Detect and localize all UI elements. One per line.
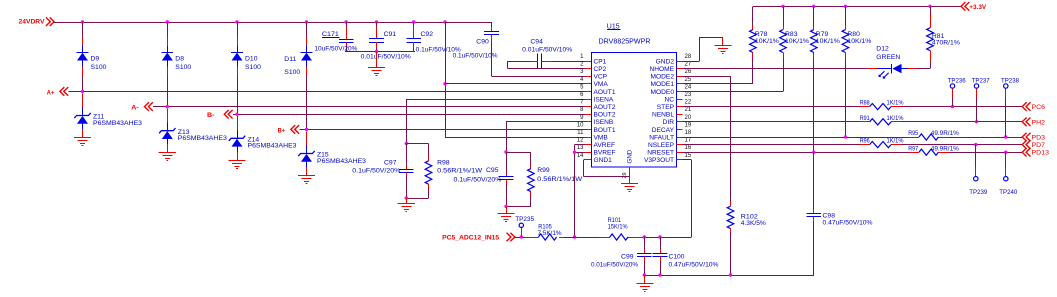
ground GND2 [714, 37, 731, 53]
wire R78 top [752, 6, 754, 29]
junction B+ Z15 [305, 128, 308, 131]
wire Z14 lead [237, 116, 239, 160]
junction at D11 [305, 20, 308, 23]
svg-text:C171: C171 [322, 31, 339, 38]
junction BVREF [573, 151, 576, 154]
svg-text:1K/1%: 1K/1% [887, 138, 904, 145]
wire vref line [515, 237, 643, 239]
svg-text:15: 15 [685, 153, 692, 159]
svg-text:0.01uF/50V/10%: 0.01uF/50V/10% [361, 54, 411, 61]
capacitor C99 [591, 237, 652, 275]
junction ISENA node [405, 142, 408, 145]
resistor R91 [860, 115, 904, 125]
resistor R81 [927, 6, 961, 68]
pin 20 DIR [663, 115, 692, 126]
svg-text:10K/1%: 10K/1% [755, 38, 779, 45]
junction AVREF node [573, 235, 576, 238]
wire C95-R99 bottom [506, 206, 531, 208]
svg-text:16: 16 [685, 145, 692, 151]
svg-text:ISENB: ISENB [594, 119, 614, 126]
svg-text:1K/1%: 1K/1% [887, 100, 904, 107]
svg-text:0.01uF/50V/10%: 0.01uF/50V/10% [522, 47, 572, 54]
test point TP236 [948, 77, 966, 106]
svg-text:B-: B- [207, 112, 215, 119]
resistor R83 [780, 30, 810, 53]
svg-text:P6SMB43AHE3: P6SMB43AHE3 [317, 158, 366, 165]
svg-text:R99: R99 [537, 167, 550, 174]
wire ISENB [506, 122, 585, 153]
junction at C91 [375, 20, 378, 23]
svg-text:25: 25 [685, 77, 692, 83]
junction at D9 [81, 20, 84, 23]
svg-text:D12: D12 [876, 46, 889, 53]
svg-text:AVREF: AVREF [594, 142, 616, 149]
svg-text:D9: D9 [91, 56, 100, 63]
pin 13 BVREF [577, 145, 616, 156]
pin 5 AOUT1 [580, 84, 616, 95]
svg-text:AOUT2: AOUT2 [594, 104, 616, 111]
svg-text:23: 23 [685, 92, 692, 98]
svg-text:GND1: GND1 [594, 157, 613, 164]
wire R79 bottom lead [813, 53, 815, 58]
capacitor C97 [352, 144, 413, 199]
svg-text:0.56R/1%/1W: 0.56R/1%/1W [437, 167, 483, 174]
junction TP235 [520, 235, 523, 238]
wire B+ to BOUT1 [299, 129, 585, 131]
pin 7 AOUT2 [580, 100, 616, 111]
svg-text:26: 26 [685, 69, 692, 75]
svg-text:PD3: PD3 [1032, 135, 1046, 142]
junction TP237 [975, 120, 978, 123]
resistor R79 [811, 30, 841, 53]
pin 9 ISENB [580, 115, 614, 126]
svg-text:MODE2: MODE2 [651, 74, 675, 81]
svg-text:C94: C94 [530, 39, 543, 46]
junction TP236 [951, 105, 954, 108]
junction ISENB node [504, 150, 507, 153]
svg-text:10K/1%: 10K/1% [785, 38, 809, 45]
svg-text:DECAY: DECAY [652, 127, 675, 134]
pin 6 ISENA [580, 92, 614, 103]
wire MODE1 net [683, 58, 753, 84]
wire D11 column [306, 22, 308, 129]
svg-text:0.01uF/50V/20%: 0.01uF/50V/20% [591, 262, 638, 269]
svg-text:ISENA: ISENA [594, 96, 614, 103]
wire 24VDRV rail [54, 22, 491, 24]
svg-text:10K/1%: 10K/1% [816, 38, 840, 45]
wire C97-R98 bottom [406, 198, 428, 200]
svg-text:R97: R97 [908, 145, 918, 152]
svg-text:MODE1: MODE1 [651, 81, 675, 88]
pin 2 CP2 [580, 62, 607, 73]
svg-text:B+: B+ [278, 127, 286, 134]
junction A- Z13 [166, 105, 169, 108]
svg-text:R96: R96 [860, 138, 870, 145]
wire D10 column [237, 22, 239, 114]
resistor R98 [425, 144, 483, 199]
wire GND2 to ground [683, 37, 723, 61]
resistor R95 [908, 130, 959, 140]
ground Z13 [159, 153, 176, 161]
svg-text:10K/1%: 10K/1% [847, 38, 871, 45]
svg-text:GND2: GND2 [656, 58, 675, 65]
wire R83 top [783, 6, 785, 29]
pin 18 NFAULT [649, 130, 692, 141]
pin 26 MODE2 [651, 69, 692, 80]
svg-text:49.9R/1%: 49.9R/1% [931, 145, 959, 152]
svg-text:11: 11 [577, 130, 584, 136]
net label PC6 [1022, 102, 1045, 111]
svg-text:VMB: VMB [594, 134, 609, 141]
svg-text:0.1uF/50V/20%: 0.1uF/50V/20% [454, 176, 502, 183]
junction B- Z14 [235, 113, 238, 116]
test point TP237 [972, 77, 990, 121]
wire B- to BOUT2 [233, 114, 585, 116]
svg-text:NSLEEP: NSLEEP [648, 142, 675, 149]
wire R79 top [813, 6, 815, 29]
svg-text:S100: S100 [91, 64, 107, 71]
wire R80 to NFAULT [845, 58, 847, 137]
svg-text:BVREF: BVREF [594, 150, 616, 157]
wire R81 to LED [916, 68, 930, 70]
pin 27 NHOME [649, 62, 691, 73]
wire MODE0 net [683, 58, 784, 92]
net label +3.3V [961, 2, 987, 11]
test point TP240 [999, 152, 1017, 196]
net label B- [207, 110, 233, 119]
svg-text:A-: A- [131, 105, 139, 112]
junction C99 gnd [643, 273, 646, 276]
svg-text:R98: R98 [437, 160, 450, 167]
junction at D10 [235, 20, 238, 23]
svg-text:29: 29 [622, 173, 628, 179]
svg-text:7.5K/1%: 7.5K/1% [538, 230, 562, 237]
junction C95 gnd [504, 205, 507, 208]
junction at C171 [344, 20, 347, 23]
net label B+ [278, 125, 300, 134]
svg-text:NHOME: NHOME [649, 66, 674, 73]
junction TP238 [1004, 135, 1007, 138]
ground C95 [497, 206, 514, 221]
wire VMA branch [445, 83, 585, 85]
resistor R105 [538, 224, 562, 241]
resistor R101 [608, 217, 628, 240]
svg-text:NC: NC [664, 96, 674, 103]
wire AVREF-BVREF [575, 145, 586, 238]
svg-text:R95: R95 [908, 130, 918, 137]
net label A- [131, 102, 153, 111]
junction C97 gnd [405, 196, 408, 199]
zener Z15 [298, 151, 366, 165]
svg-text:S100: S100 [175, 64, 191, 71]
wire STEP net [683, 106, 1023, 108]
svg-text:C95: C95 [486, 167, 499, 174]
test point TP239 [969, 145, 987, 197]
svg-text:12: 12 [577, 138, 584, 144]
capacitor C171 [314, 22, 357, 53]
pin 4 VMA [580, 77, 608, 88]
svg-text:C90: C90 [476, 39, 489, 46]
svg-text:A+: A+ [47, 89, 55, 96]
ground C97 [398, 198, 415, 212]
junction C100 gnd [658, 273, 661, 276]
pin 25 MODE1 [651, 77, 692, 88]
resistor R80 [842, 30, 872, 53]
pin 22 STEP [657, 100, 692, 111]
svg-text:D10: D10 [245, 56, 258, 63]
svg-text:0.1uF/50V/20%: 0.1uF/50V/20% [352, 167, 400, 174]
svg-text:28: 28 [685, 54, 692, 60]
capacitor C94 [522, 39, 572, 69]
junction TP240 [1004, 151, 1007, 154]
net label PC5_ADC12_IN15 [442, 233, 515, 242]
wire NFAULT net [683, 137, 1023, 139]
svg-text:24VDRV: 24VDRV [19, 19, 45, 26]
resistor R99 [528, 152, 584, 206]
junction R83 rail [781, 5, 784, 8]
wire Z11 lead [82, 93, 84, 137]
svg-text:C91: C91 [384, 31, 397, 38]
junction R80 rail [844, 5, 847, 8]
pin 16 NRESET [647, 145, 692, 156]
diode D9 [77, 53, 107, 72]
wire C95-R99 top [506, 152, 531, 154]
wire R78 bottom lead [752, 53, 754, 58]
pin 3 VCP [580, 69, 608, 80]
svg-text:+3.3V: +3.3V [969, 4, 986, 11]
net label PD7 [1022, 140, 1045, 149]
pin 19 DECAY [652, 122, 692, 133]
junction A+ Z11 [81, 90, 84, 93]
pin 23 NC [664, 92, 691, 103]
wire Z13 lead [167, 109, 169, 153]
net label A+ [47, 87, 68, 96]
svg-text:15K/1%: 15K/1% [608, 223, 628, 230]
svg-text:4.3K/5%: 4.3K/5% [741, 220, 766, 227]
wire NRESET net [683, 152, 1023, 154]
test point TP238 [1001, 77, 1019, 137]
svg-text:AOUT1: AOUT1 [594, 89, 616, 96]
capacitor C90 [453, 32, 499, 60]
wire C97-R98 top [406, 143, 428, 145]
wire CP1 [542, 61, 585, 63]
ground Z11 [74, 138, 91, 146]
svg-text:10: 10 [577, 122, 584, 128]
svg-text:NENBL: NENBL [652, 112, 674, 119]
ground Z14 [228, 161, 245, 169]
net label PD3 [1022, 133, 1045, 142]
svg-text:14: 14 [577, 153, 584, 159]
svg-text:CP2: CP2 [594, 66, 607, 73]
svg-text:TP235: TP235 [515, 216, 534, 223]
svg-text:R88: R88 [860, 100, 870, 107]
junction R81 rail [928, 5, 931, 8]
svg-text:NRESET: NRESET [647, 150, 674, 157]
svg-text:17: 17 [685, 138, 692, 144]
svg-text:GND: GND [627, 149, 634, 163]
svg-text:BOUT2: BOUT2 [594, 112, 616, 119]
zener Z14 [229, 136, 297, 150]
wire bottom ground bus [644, 275, 814, 277]
svg-text:MODE0: MODE0 [651, 89, 675, 96]
resistor R97 [908, 145, 959, 155]
net label PD13 [1022, 148, 1049, 157]
junction VMA [443, 82, 446, 85]
wire D9 column [82, 22, 84, 91]
junction at C92 [412, 20, 415, 23]
svg-text:C99: C99 [621, 254, 634, 261]
svg-text:470R/1%: 470R/1% [932, 39, 960, 46]
svg-text:27: 27 [685, 62, 692, 68]
wire R79 to NRESET [813, 58, 815, 152]
wire C90 to VCP [492, 41, 586, 77]
pin GND pad [622, 149, 634, 178]
pin 1 CP1 [580, 54, 607, 65]
resistor R102 [727, 202, 766, 275]
net label 24VDRV [19, 17, 55, 26]
svg-text:24: 24 [685, 84, 692, 90]
svg-text:0.56R/1%/1W: 0.56R/1%/1W [537, 176, 583, 183]
svg-text:0.47uF/50V/10%: 0.47uF/50V/10% [669, 261, 719, 268]
svg-text:C97: C97 [384, 160, 397, 167]
pin 15 V3P3OUT [644, 153, 692, 164]
svg-text:C98: C98 [823, 212, 836, 219]
capacitor C95 [454, 152, 514, 206]
svg-text:GREEN: GREEN [876, 54, 900, 61]
svg-text:PH2: PH2 [1032, 119, 1046, 126]
svg-text:TP238: TP238 [1001, 77, 1019, 84]
svg-text:TP237: TP237 [972, 77, 990, 84]
svg-text:CP1: CP1 [594, 58, 607, 65]
svg-text:S100: S100 [284, 69, 300, 76]
svg-text:0.47uF/50V/10%: 0.47uF/50V/10% [823, 219, 873, 226]
svg-text:VCP: VCP [594, 74, 608, 81]
capacitor C91 [361, 22, 411, 61]
svg-text:P6SMB43AHE3: P6SMB43AHE3 [178, 135, 227, 142]
svg-text:VMA: VMA [594, 81, 609, 88]
capacitor C92 [406, 22, 461, 54]
junction R102 gnd [729, 273, 732, 276]
pin 28 GND2 [656, 54, 692, 65]
pin 8 BOUT2 [580, 107, 616, 118]
wire NHOME to LED [683, 68, 868, 70]
svg-text:STEP: STEP [657, 104, 675, 111]
junction R79 rail [812, 5, 815, 8]
svg-text:18: 18 [685, 130, 692, 136]
resistor R78 [750, 30, 780, 53]
svg-text:13: 13 [577, 145, 584, 151]
junction cap gnd [375, 50, 378, 53]
wire CP2 loop [507, 61, 585, 69]
wire ISENA [406, 99, 585, 144]
zener Z13 [159, 128, 227, 142]
wire GND1 to pad gnd [584, 160, 630, 177]
ground Z15 [298, 176, 315, 184]
svg-text:19: 19 [685, 122, 692, 128]
svg-text:P6SMB43AHE3: P6SMB43AHE3 [248, 143, 297, 150]
capacitor C100 [653, 237, 719, 275]
resistor R88 [860, 100, 904, 110]
pin 17 NSLEEP [648, 138, 692, 149]
pin 14 GND1 [577, 153, 612, 164]
svg-text:BOUT1: BOUT1 [594, 127, 616, 134]
pin 12 AVREF [577, 138, 615, 149]
led D12 [867, 46, 916, 78]
svg-text:C92: C92 [421, 31, 434, 38]
wire R80 top [845, 6, 847, 29]
svg-text:PD7: PD7 [1032, 142, 1046, 149]
svg-text:49.9R/1%: 49.9R/1% [931, 130, 959, 137]
svg-text:TP236: TP236 [948, 77, 966, 84]
svg-text:PC5_ADC12_IN15: PC5_ADC12_IN15 [442, 234, 499, 241]
capacitor C98 [807, 152, 873, 275]
svg-text:S100: S100 [245, 64, 261, 71]
pin 24 MODE0 [651, 84, 692, 95]
junction at VM branch [443, 20, 446, 23]
svg-text:DRV8825PWPR: DRV8825PWPR [599, 39, 651, 46]
ground C91 [368, 52, 385, 76]
svg-text:TP240: TP240 [999, 189, 1017, 196]
wire 24VDRV to VMB [445, 22, 585, 138]
net label PH2 [1022, 118, 1045, 127]
wire MODE2 net [683, 76, 731, 202]
svg-text:TP239: TP239 [969, 189, 987, 196]
svg-text:PD13: PD13 [1032, 150, 1050, 157]
junction R80 NFAULT [844, 135, 847, 138]
wire R83 bottom lead [783, 53, 785, 58]
wire D8 column [167, 22, 169, 107]
wire A+ to AOUT1 [69, 91, 586, 93]
junction C100 top [658, 235, 661, 238]
svg-text:R91: R91 [860, 115, 870, 122]
svg-text:20: 20 [685, 115, 692, 121]
pin 11 VMB [577, 130, 608, 141]
resistor R96 [860, 138, 904, 148]
diode D10 [231, 53, 261, 72]
wire DIR net [683, 121, 1023, 123]
wire cap ground node [345, 51, 415, 53]
ground bottom [636, 275, 653, 292]
svg-text:D11: D11 [284, 56, 296, 63]
svg-text:P6SMB43AHE3: P6SMB43AHE3 [93, 120, 142, 127]
svg-text:1K/1%: 1K/1% [887, 115, 904, 122]
op-amp U15 body [592, 24, 677, 168]
svg-text:V3P3OUT: V3P3OUT [644, 157, 674, 164]
svg-text:NFAULT: NFAULT [649, 134, 674, 141]
ground U15 [621, 177, 638, 192]
svg-text:D8: D8 [175, 56, 184, 63]
wire NSLEEP net [683, 144, 1023, 146]
pin 10 BOUT1 [577, 122, 616, 133]
diode D8 [161, 53, 191, 72]
junction R79 NRESET [812, 151, 815, 154]
wire rail to C90 [445, 22, 492, 31]
zener Z11 [74, 113, 142, 127]
test point TP235 [515, 216, 534, 237]
pin 21 NENBL [652, 107, 692, 118]
svg-text:DIR: DIR [663, 119, 675, 126]
wire +3.3V rail [753, 6, 961, 8]
svg-text:21: 21 [685, 107, 692, 113]
junction at D8 [166, 20, 169, 23]
wire A- to AOUT2 [153, 106, 585, 108]
svg-text:PC6: PC6 [1032, 104, 1046, 111]
diode D11 [284, 53, 312, 76]
wire R80 bottom lead [845, 53, 847, 58]
wire Z15 lead [306, 131, 308, 175]
svg-text:C100: C100 [669, 254, 685, 261]
svg-text:22: 22 [685, 100, 692, 106]
